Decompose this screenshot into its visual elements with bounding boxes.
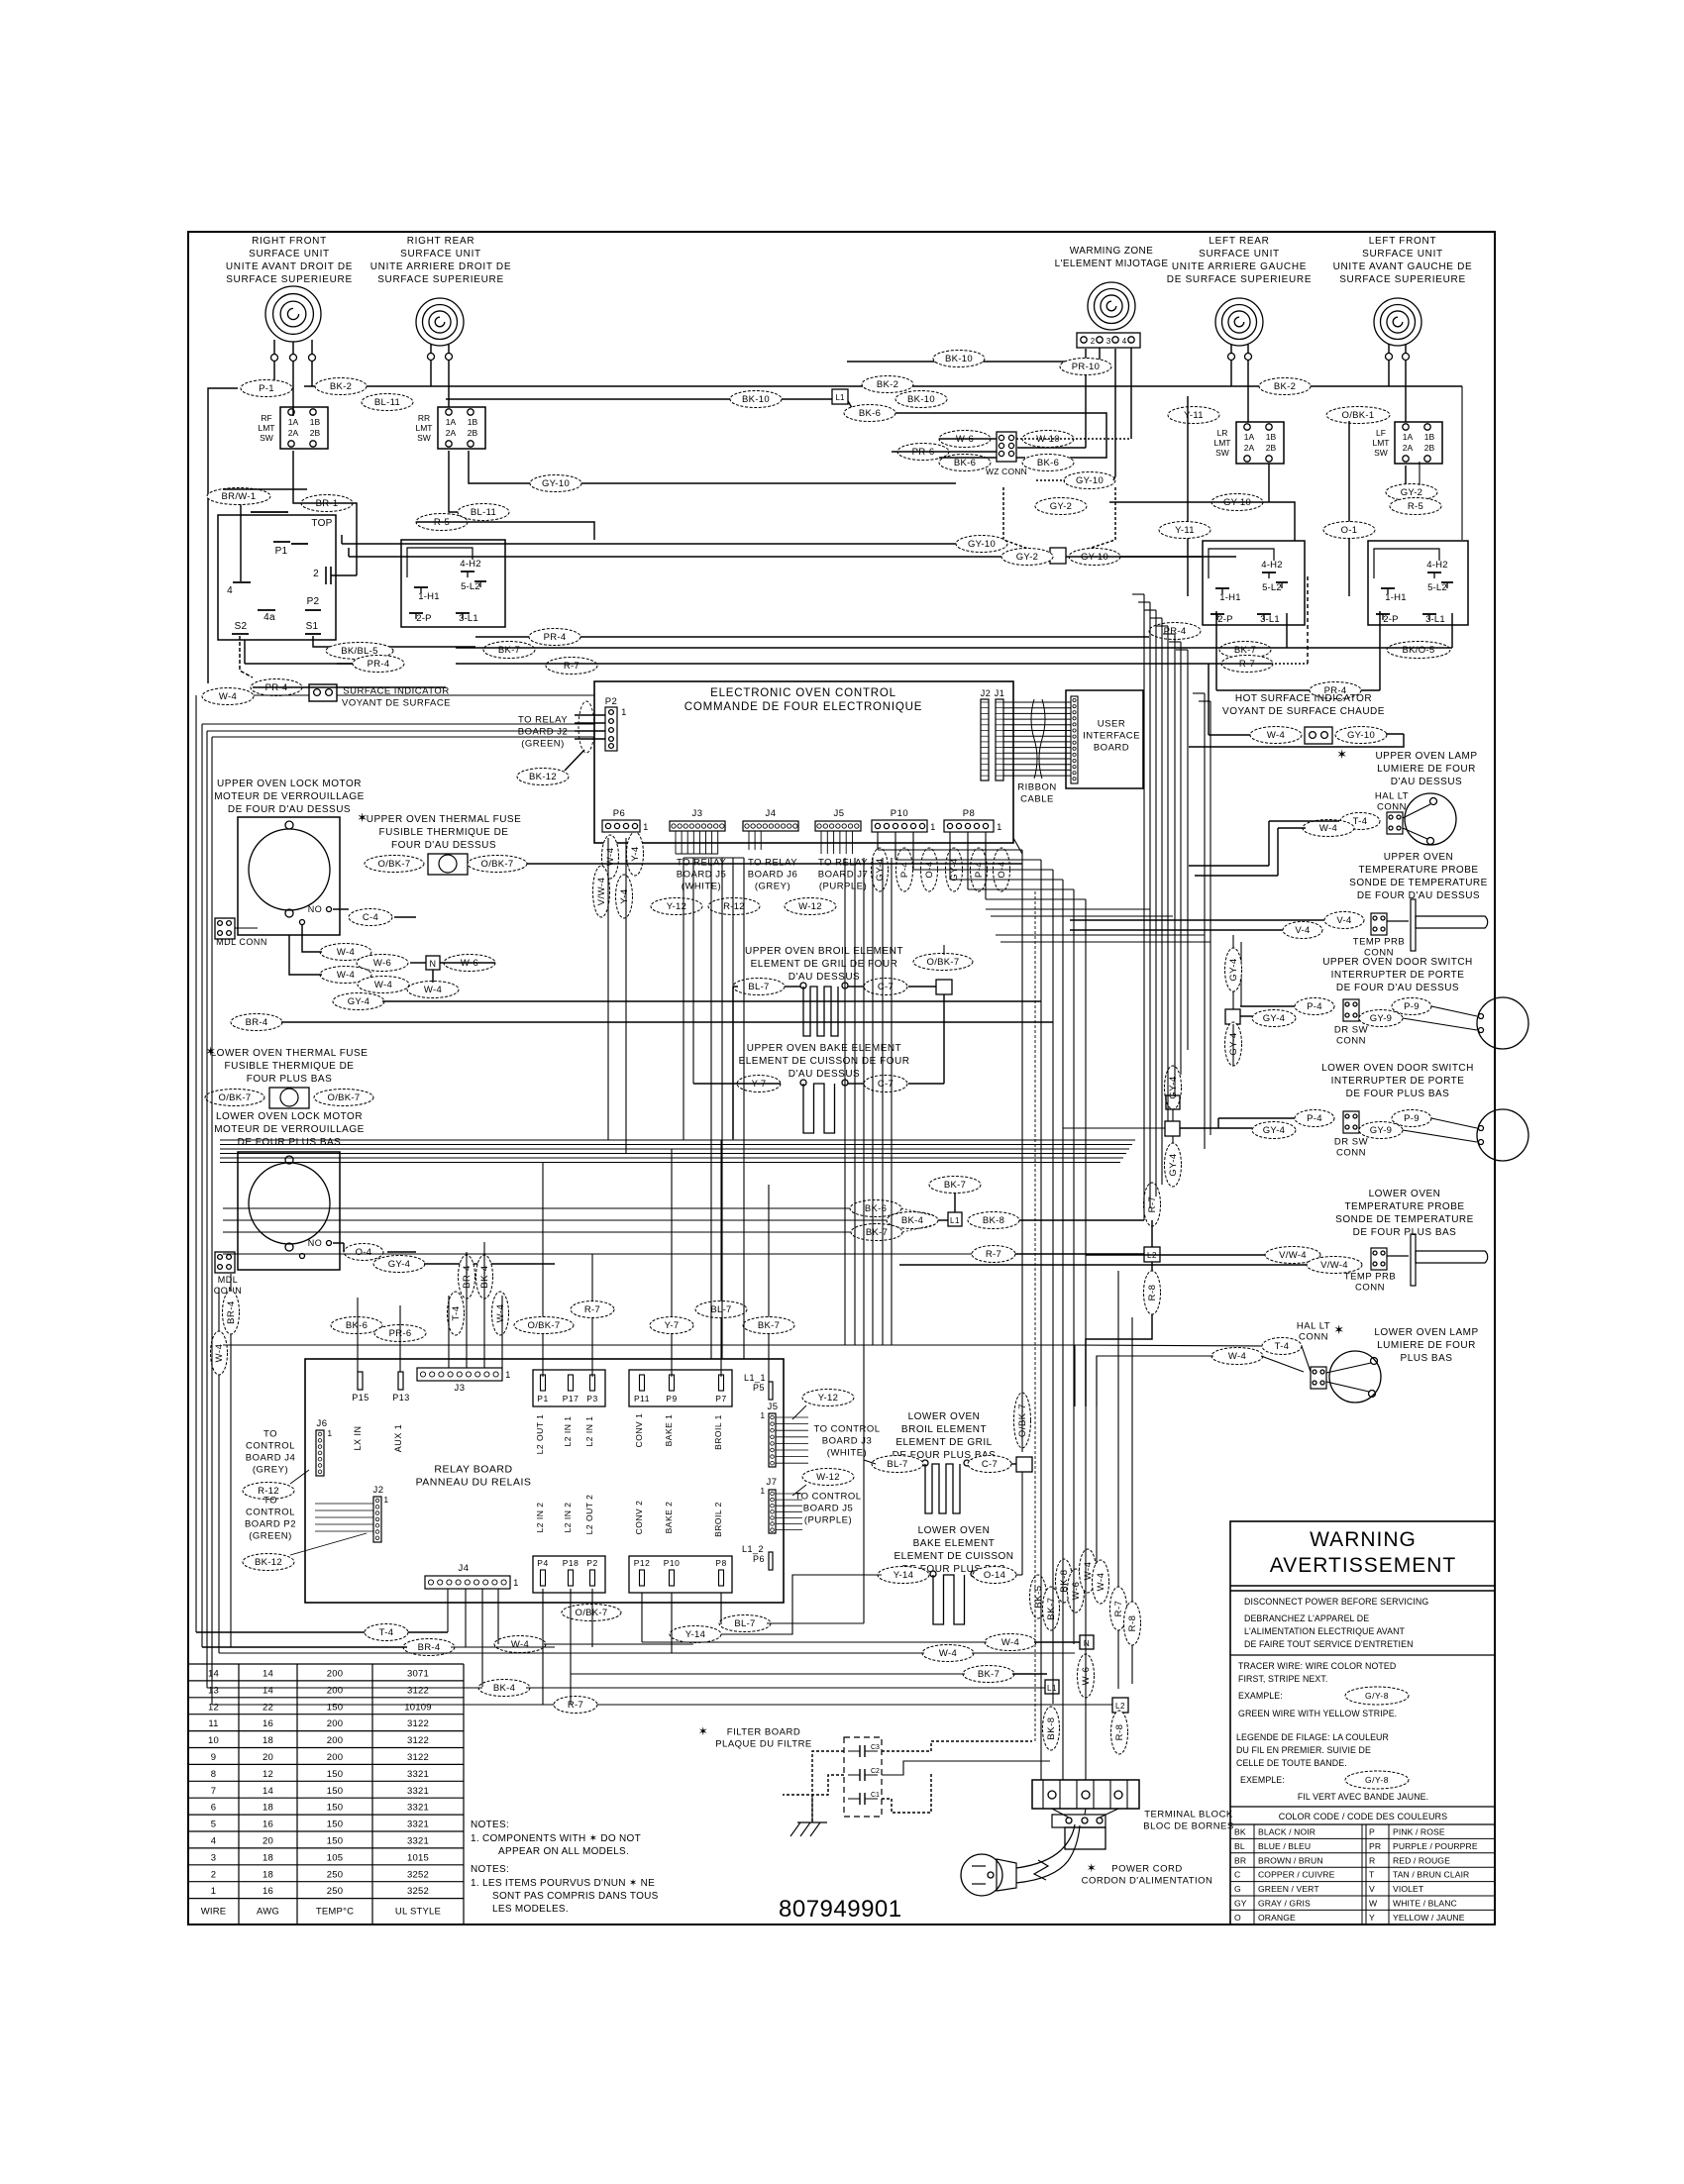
svg-text:BK-10: BK-10 [907,394,935,405]
svg-text:13: 13 [208,1685,219,1696]
svg-text:C2: C2 [871,1768,880,1775]
svg-text:CONV 2: CONV 2 [634,1501,644,1535]
svg-text:DE FAIRE TOUT SERVICE D'ENTRET: DE FAIRE TOUT SERVICE D'ENTRETIEN [1244,1639,1414,1649]
wire BK-2 horizontal [304,385,1462,387]
svg-text:FILTER BOARD: FILTER BOARD [727,1727,800,1738]
svg-text:BROIL 2: BROIL 2 [713,1502,723,1537]
wire terminals to lower block [1052,1809,1069,1818]
vertical oval R-8 bottomr [1131,1317,1133,1684]
svg-text:WARNING: WARNING [1310,1528,1417,1551]
svg-text:LUMIERE DE FOUR: LUMIERE DE FOUR [1377,764,1476,775]
oval label BK-2 right [1259,378,1311,395]
svg-text:150: 150 [327,1820,343,1830]
svg-text:LUMIERE DE FOUR: LUMIERE DE FOUR [1377,1340,1476,1351]
svg-text:O/BK-7: O/BK-7 [328,1092,361,1103]
mid horizontal bus [220,1139,1135,1141]
junction box GY [1050,548,1066,564]
upper door switch symbol [1295,998,1334,1015]
svg-text:3122: 3122 [407,1685,429,1696]
svg-text:BLUE / BLEU: BLUE / BLEU [1258,1841,1311,1851]
svg-text:✶: ✶ [1336,747,1347,762]
oval label BR-4 m [231,1014,282,1031]
vertical oval BK-4 c2 [476,1255,493,1299]
svg-text:150: 150 [327,1702,343,1713]
svg-text:UNITE ARRIERE GAUCHE: UNITE ARRIERE GAUCHE [1172,261,1307,272]
svg-text:CONN: CONN [1377,802,1407,813]
svg-text:11: 11 [208,1718,218,1729]
terminal block lower [1052,1815,1105,1827]
svg-text:BL-11: BL-11 [374,397,400,408]
wire upper bake [737,1083,781,1085]
oval label BL-7 rb [695,1301,747,1318]
svg-text:RIBBON: RIBBON [1017,782,1056,793]
oval label W-4 lower lamp [1211,1348,1263,1365]
svg-text:PR-4: PR-4 [544,632,567,643]
svg-text:ELECTRONIC OVEN CONTROL: ELECTRONIC OVEN CONTROL [710,687,896,699]
svg-text:T-4: T-4 [1353,816,1368,827]
svg-text:FOUR PLUS BAS: FOUR PLUS BAS [247,1074,333,1085]
surface indicator box [309,684,337,701]
svg-text:P15: P15 [352,1393,369,1403]
svg-text:✶: ✶ [1333,1322,1344,1337]
svg-text:WIRE: WIRE [201,1907,227,1918]
svg-text:4-H2: 4-H2 [460,559,480,570]
svg-text:VOYANT DE SURFACE CHAUDE: VOYANT DE SURFACE CHAUDE [1222,706,1385,717]
wire hot surface indicator [1208,664,1210,735]
svg-text:TEMP°C: TEMP°C [316,1907,354,1918]
svg-text:O/BK-1: O/BK-1 [1342,410,1375,421]
svg-text:ORANGE: ORANGE [1258,1913,1296,1923]
svg-text:1A: 1A [1403,432,1414,442]
svg-text:Y-11: Y-11 [1175,525,1195,536]
svg-text:L1_2: L1_2 [742,1544,764,1554]
svg-text:YELLOW / JAUNE: YELLOW / JAUNE [1393,1913,1465,1923]
svg-text:P2: P2 [586,1558,597,1568]
svg-text:BOARD J4: BOARD J4 [246,1453,295,1464]
oval label BL-11 left [458,504,509,521]
svg-text:BROIL ELEMENT: BROIL ELEMENT [901,1424,987,1435]
oval label O/BK-7 ub [913,954,973,971]
svg-text:CONTROL: CONTROL [246,1441,295,1452]
node L1 bottom [1045,1680,1059,1694]
lower thermal fuse symbol [205,1090,264,1106]
svg-text:V/W-4: V/W-4 [1279,1250,1307,1261]
svg-text:1A: 1A [288,417,299,427]
oval label W-4 m6 [407,982,459,998]
svg-text:LOWER OVEN: LOWER OVEN [908,1411,981,1422]
svg-text:BK-6: BK-6 [954,458,976,468]
oval label GY-2 at junction [1001,549,1053,566]
svg-text:DE FOUR D'AU DESSUS: DE FOUR D'AU DESSUS [1336,983,1459,993]
svg-text:P-9: P-9 [1404,1113,1420,1124]
svg-text:GY-9: GY-9 [1370,1125,1393,1136]
svg-text:W-4: W-4 [939,1648,957,1659]
svg-text:3321: 3321 [407,1803,429,1814]
svg-text:P-9: P-9 [1404,1001,1420,1012]
vertical oval W-4 c4 [492,1292,509,1335]
svg-text:BK-7: BK-7 [1046,1597,1057,1619]
oval label BK-8 L1 [968,1212,1019,1229]
wire L1 mid connections [954,1193,956,1212]
svg-text:DR SW: DR SW [1334,1137,1368,1148]
svg-text:L2: L2 [1115,1702,1125,1711]
wire LR leads [1230,360,1232,386]
svg-text:BAKE 2: BAKE 2 [664,1502,674,1534]
svg-text:1A: 1A [446,417,457,427]
svg-text:BK-10: BK-10 [742,394,770,405]
wires from EOC right side down [1013,838,1022,854]
oval label GY-10 over LR [1211,494,1263,511]
wire BK-10 upper [847,361,1100,363]
svg-text:W-4: W-4 [424,985,442,995]
svg-text:W-4: W-4 [511,1639,529,1650]
wire BK-10 to L1 [446,398,832,400]
svg-text:1: 1 [505,1370,511,1380]
wire BK-7 n [571,1673,965,1675]
svg-text:RIGHT FRONT: RIGHT FRONT [252,236,327,247]
svg-text:R-7: R-7 [564,661,579,672]
oval label GY-10 right of junction [1069,549,1120,566]
svg-text:BOARD J6: BOARD J6 [748,870,797,881]
svg-text:4: 4 [227,585,233,596]
wire upper broil [733,986,738,988]
mid vertical bundle [854,858,856,1345]
svg-text:HAL LT: HAL LT [1375,791,1409,802]
oval label BR/W-1 [207,488,270,505]
wire bk7 long [456,647,1452,649]
junction square above lower door switch [1166,1095,1180,1109]
svg-text:R-7: R-7 [568,1700,583,1711]
svg-text:BR-4: BR-4 [226,1300,237,1324]
svg-text:P6: P6 [613,808,626,819]
svg-text:DE FOUR D'AU DESSUS: DE FOUR D'AU DESSUS [228,804,351,815]
svg-text:G: G [1234,1884,1241,1894]
P6 drop verticals [607,838,609,1140]
node L2 bottom [1112,1698,1128,1713]
svg-text:W-4: W-4 [337,947,355,958]
svg-text:BK-6: BK-6 [859,408,881,419]
vertical ovals cluster below relay [1030,1575,1047,1618]
staircase pins to bus [877,832,879,850]
svg-text:BAKE ELEMENT: BAKE ELEMENT [913,1538,996,1549]
upper oven lock motor box [238,817,340,935]
svg-text:TERMINAL BLOCK: TERMINAL BLOCK [1144,1810,1233,1820]
oval label W-4 m1 [320,944,371,961]
wire long gy4 doors [1232,991,1234,1009]
svg-text:BK-2: BK-2 [1274,381,1296,392]
wire pr4 bottom [253,686,446,688]
oval label BK/BL-5 [326,643,393,660]
oval label PR-4 extra [353,656,404,673]
oval label T-4 lower lamp [1262,1338,1302,1355]
svg-text:VIOLET: VIOLET [1393,1884,1424,1894]
svg-text:UPPER OVEN BAKE ELEMENT: UPPER OVEN BAKE ELEMENT [747,1043,902,1054]
svg-text:(PURPLE): (PURPLE) [819,882,867,892]
svg-text:GRAY / GRIS: GRAY / GRIS [1258,1899,1311,1909]
svg-text:L2 IN 2: L2 IN 2 [563,1503,573,1533]
svg-text:J4: J4 [458,1563,469,1574]
svg-text:BR-4: BR-4 [246,1017,268,1028]
vertical oval V/W-4 p6c [593,866,610,917]
left bus top horizontals [254,694,309,696]
switch box LF surface element [1368,541,1468,625]
svg-text:BOARD: BOARD [1094,743,1129,754]
feed verticals to relay pins [542,1162,544,1377]
svg-text:3122: 3122 [407,1735,429,1746]
svg-text:14: 14 [208,1669,219,1680]
svg-text:GY-2: GY-2 [1016,552,1039,563]
svg-text:FIL VERT AVEC BANDE JAUNE.: FIL VERT AVEC BANDE JAUNE. [1298,1792,1428,1802]
svg-text:3252: 3252 [407,1886,429,1897]
oval label C-7 ubk [864,1076,907,1092]
svg-text:R-12: R-12 [723,901,745,912]
svg-text:P-1: P-1 [259,383,274,394]
oval label P-1 [241,380,292,397]
svg-text:GY-4: GY-4 [1228,958,1239,981]
svg-text:J4: J4 [765,808,776,819]
svg-text:20: 20 [263,1836,273,1847]
misc long verticals [844,858,846,1345]
svg-text:L2 IN 2: L2 IN 2 [535,1503,545,1533]
svg-text:BOARD J3: BOARD J3 [822,1436,872,1447]
wire BK-6 from L1 [848,401,1106,458]
svg-text:10109: 10109 [404,1702,431,1713]
svg-text:VOYANT DE SURFACE: VOYANT DE SURFACE [342,698,451,709]
svg-text:WARMING ZONE: WARMING ZONE [1070,246,1153,257]
surface unit coil LF [1374,298,1421,346]
WZ CONN connector [997,432,1016,462]
svg-text:BK-7: BK-7 [758,1320,780,1331]
svg-text:BK/O-5: BK/O-5 [1403,645,1435,656]
svg-text:TAN / BRUN CLAIR: TAN / BRUN CLAIR [1393,1870,1469,1880]
svg-text:BK-12: BK-12 [255,1557,282,1568]
power cord plug [961,1854,1002,1896]
svg-text:(GREEN): (GREEN) [249,1531,292,1542]
wire r-5 run [416,522,594,540]
wire bottom runs [196,1631,365,1633]
svg-text:P8: P8 [715,1558,726,1568]
filter board dashed box [844,1737,882,1817]
block P11 P9 P7 [629,1370,732,1406]
svg-text:PR-4: PR-4 [368,659,390,670]
oval label R-7 rb [571,1301,614,1318]
svg-text:SW: SW [417,433,431,443]
funnel dashed collector [1003,487,1045,555]
svg-text:GY-4: GY-4 [1228,1032,1239,1055]
svg-text:C-7: C-7 [982,1459,998,1470]
node N bottom [1080,1635,1094,1649]
svg-text:W-4: W-4 [337,970,355,981]
svg-text:BR-4: BR-4 [462,1265,473,1289]
wire upper lamp [1269,820,1339,822]
svg-text:3-L1: 3-L1 [1260,614,1280,625]
svg-text:O/BK-7: O/BK-7 [576,1608,608,1618]
svg-text:LOWER OVEN THERMAL FUSE: LOWER OVEN THERMAL FUSE [211,1048,368,1059]
svg-text:LX IN: LX IN [353,1425,363,1450]
svg-text:J2: J2 [372,1485,383,1496]
svg-text:NOTES:: NOTES: [471,1820,509,1830]
svg-text:UPPER OVEN: UPPER OVEN [1384,852,1454,863]
svg-text:150: 150 [327,1803,343,1814]
oval label C-7 ub [864,979,907,995]
svg-text:L1: L1 [1047,1684,1057,1693]
svg-text:CONN: CONN [1299,1332,1328,1343]
svg-text:N: N [430,959,437,969]
svg-text:GY-4: GY-4 [348,996,370,1007]
vertical oval W-6 bottom [1078,1654,1095,1698]
svg-text:W-4: W-4 [1096,1573,1106,1592]
svg-text:BL-7: BL-7 [748,982,769,992]
svg-text:V: V [1369,1884,1375,1894]
svg-text:1B: 1B [1266,432,1277,442]
vertical oval O-4 p8c [994,848,1010,891]
svg-text:BK-12: BK-12 [529,772,557,782]
wire motor bottom runs [235,927,258,929]
svg-text:BL: BL [1234,1841,1245,1851]
svg-text:1: 1 [643,822,649,832]
oval label BK-6 L1 [850,1200,901,1217]
block P12 P10 P8 [629,1556,732,1593]
oval label BK-7 left [483,642,535,659]
surface unit coil LR [1215,298,1263,346]
oval label PR-6 wz [897,444,949,461]
svg-text:ELEMENT DE CUISSON: ELEMENT DE CUISSON [894,1551,1013,1562]
svg-text:P3: P3 [586,1394,597,1404]
svg-text:BR: BR [1234,1855,1246,1865]
svg-text:UPPER OVEN DOOR SWITCH: UPPER OVEN DOOR SWITCH [1322,957,1473,968]
svg-text:GY-10: GY-10 [968,539,996,550]
svg-text:1: 1 [621,707,627,717]
svg-text:BL-7: BL-7 [734,1618,755,1629]
svg-text:P13: P13 [392,1393,410,1403]
svg-text:R-8: R-8 [1114,1724,1125,1741]
svg-text:W-4: W-4 [219,691,237,702]
svg-text:NO: NO [308,904,323,914]
svg-text:3321: 3321 [407,1836,429,1847]
oval label PR-4 right [1149,623,1201,640]
svg-text:1. COMPONENTS WITH ✶ DO NOT: 1. COMPONENTS WITH ✶ DO NOT [471,1833,641,1844]
svg-text:8: 8 [211,1769,216,1780]
svg-text:CONN: CONN [1355,1283,1385,1294]
vertical oval O/BK-7 lb [1014,1393,1031,1448]
oval label Y-12 eoc [651,898,702,915]
svg-text:P2: P2 [605,696,618,707]
svg-text:BOARD J2: BOARD J2 [518,727,568,738]
oval label O/BK-7 below rb [562,1605,621,1621]
oval label R-5 right [1390,498,1441,515]
svg-text:LEFT REAR: LEFT REAR [1209,236,1269,247]
terminal block [1032,1780,1139,1809]
svg-text:2B: 2B [468,428,478,438]
wire O-1 vertical [1348,421,1350,596]
svg-text:3122: 3122 [407,1752,429,1763]
svg-text:5: 5 [211,1820,216,1830]
lower lamp conn [1311,1367,1326,1389]
svg-text:LR: LR [1217,428,1228,438]
svg-text:RIGHT REAR: RIGHT REAR [407,236,475,247]
svg-text:150: 150 [327,1786,343,1797]
svg-text:R: R [1369,1855,1375,1865]
svg-text:O/BK-7: O/BK-7 [219,1092,252,1103]
wire N node [410,962,426,964]
block P1 P17 P3 [533,1370,605,1406]
right staircase bundle [986,908,1150,910]
upper element junction box [936,980,952,994]
block P4 P18 P2 [533,1556,605,1593]
wire j2 relay fan [315,1503,373,1505]
oval label PR-4 right2 [1310,682,1361,699]
oval label BR-4 below rb [403,1639,455,1656]
svg-text:FUSIBLE THERMIQUE DE: FUSIBLE THERMIQUE DE [379,827,509,838]
oval label BK-7 L1b [851,1224,902,1241]
limit switch LF LMT SW [1395,422,1442,464]
ribbon cable [1003,701,1071,703]
svg-text:DR SW: DR SW [1334,1025,1368,1036]
connector J3 relay [417,1368,502,1381]
svg-text:W-4: W-4 [1001,1637,1019,1648]
upper lamp circle [1405,793,1456,845]
svg-text:W: W [1369,1899,1378,1909]
left vertical bus [195,695,197,1632]
svg-text:(GREEN): (GREEN) [521,739,565,750]
svg-text:SONDE DE TEMPERATURE: SONDE DE TEMPERATURE [1335,1214,1474,1225]
svg-text:5-L2: 5-L2 [461,581,480,592]
svg-text:BK: BK [1234,1827,1246,1837]
svg-text:HAL LT: HAL LT [1297,1321,1330,1332]
oval label W-6 m2 [357,955,408,972]
svg-text:LMT: LMT [416,423,433,433]
svg-text:N: N [1084,1639,1090,1648]
svg-text:14: 14 [263,1669,273,1680]
oval label T-4 below rb [365,1624,408,1641]
svg-text:250: 250 [327,1886,343,1897]
svg-text:TEMP PRB: TEMP PRB [1344,1272,1396,1283]
oval label BL-7 ub [733,979,785,995]
wire br-1 path [293,451,357,575]
wire L2 vertical [1151,1220,1153,1247]
J4 pin fanout [748,831,750,850]
svg-text:TO CONTROL: TO CONTROL [794,1492,861,1503]
wire temp probe [1070,919,1324,921]
oval label BL-7 below rb [719,1615,771,1632]
oval label GY-2 funnel [1035,498,1087,515]
svg-text:1B: 1B [310,417,321,427]
svg-text:3071: 3071 [407,1669,429,1680]
svg-text:1: 1 [930,822,936,832]
svg-text:P: P [1369,1827,1375,1837]
svg-text:AUX 1: AUX 1 [393,1424,403,1453]
svg-text:GY-10: GY-10 [1076,475,1104,486]
vertical oval W-4 p6a [602,835,619,879]
surface unit coil RR [416,298,464,346]
oval label R-7 left [546,658,597,675]
svg-text:O-4: O-4 [356,1247,372,1258]
svg-text:BROWN / BRUN: BROWN / BRUN [1258,1855,1323,1865]
svg-text:PURPLE / POURPRE: PURPLE / POURPRE [1393,1841,1478,1851]
oval label PR-4 mid [529,629,580,646]
svg-text:Y-12: Y-12 [818,1393,838,1404]
svg-text:BK-4: BK-4 [479,1265,490,1288]
svg-text:J3: J3 [691,808,702,819]
oval label W-6 wz [939,431,991,448]
wire N bottom [642,1641,987,1643]
svg-text:SONT PAS COMPRIS DANS TOUS: SONT PAS COMPRIS DANS TOUS [492,1891,659,1902]
oval label Y-14 lbk [878,1567,929,1584]
wire LF leads [1388,360,1390,386]
wire Y-11 vertical [1187,396,1189,596]
oval label W-4 upper lamp [1303,820,1354,837]
svg-text:LES MODELES.: LES MODELES. [492,1904,569,1915]
